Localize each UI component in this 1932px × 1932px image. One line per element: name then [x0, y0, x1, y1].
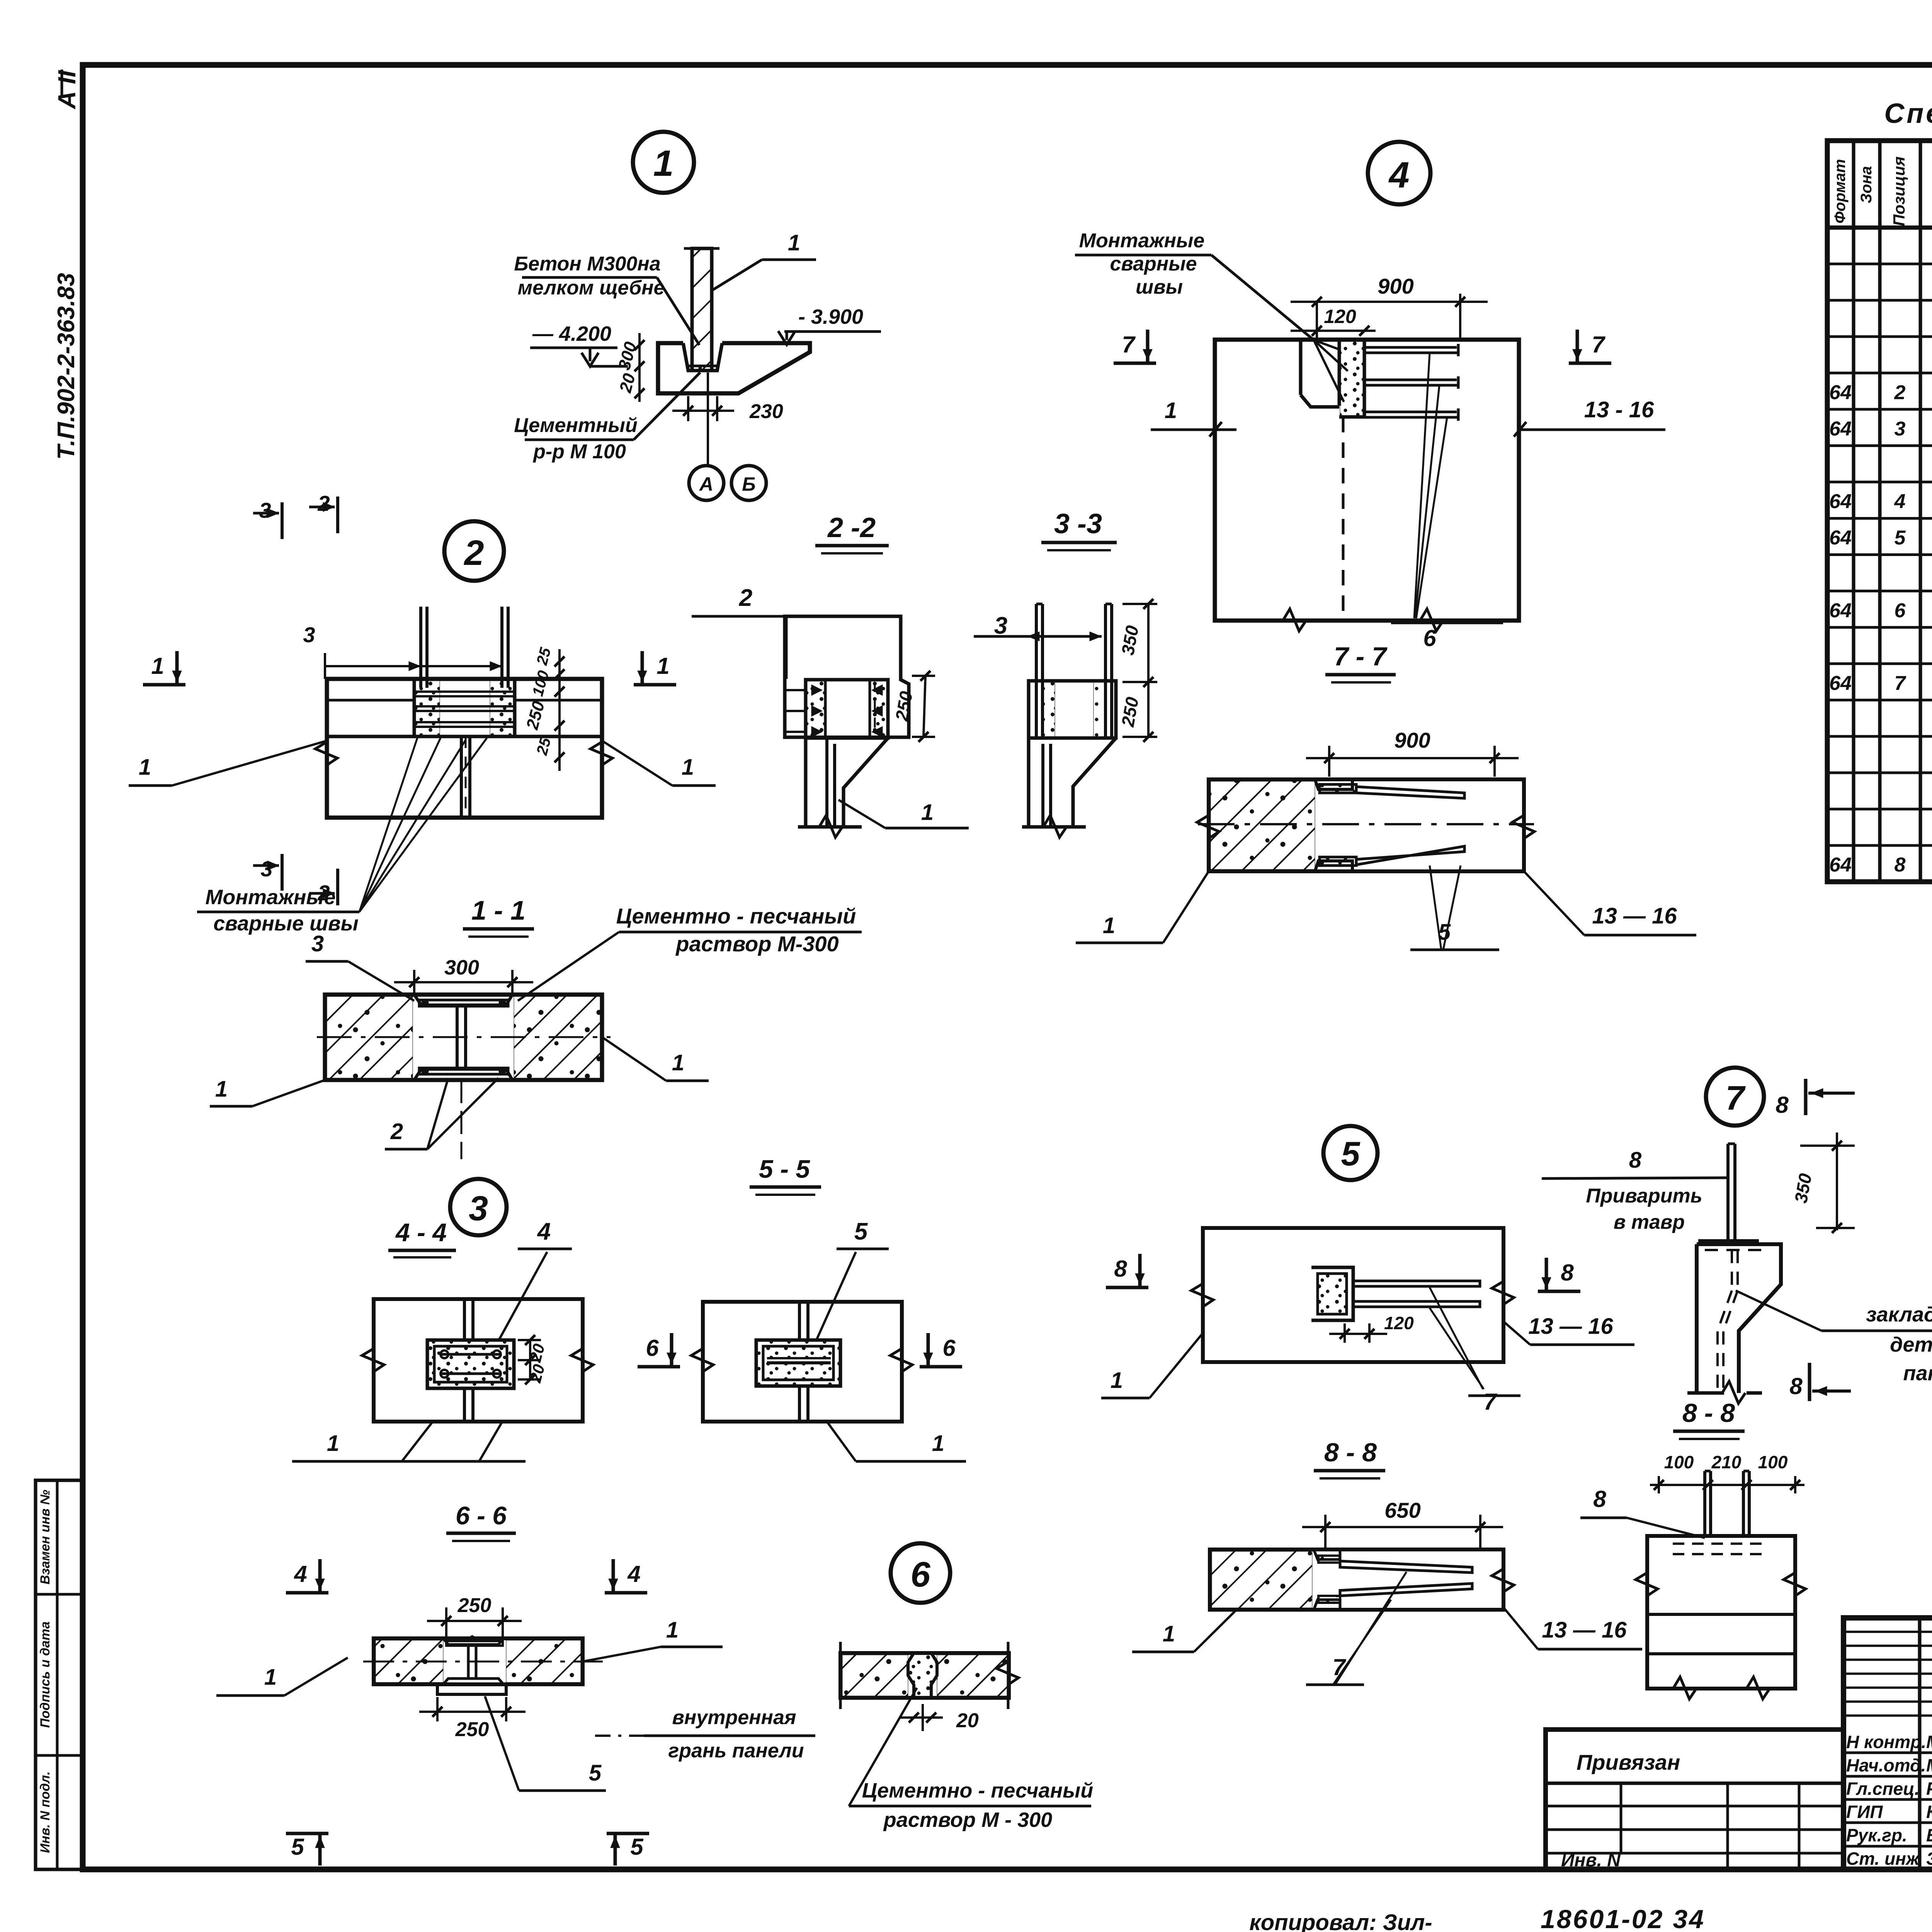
- 7-7 centerline: [1198, 823, 1534, 825]
- svg-text:900: 900: [1378, 274, 1413, 298]
- svg-text:Цементно - песчаный: Цементно - песчаный: [862, 1779, 1093, 1802]
- svg-text:Инв. N: Инв. N: [1561, 1850, 1621, 1871]
- svg-text:1 - 1: 1 - 1: [471, 895, 526, 925]
- 1-1 dim 300: [413, 970, 415, 993]
- 4-4 dims 20 20: [518, 1339, 541, 1341]
- svg-text:250: 250: [1117, 696, 1143, 729]
- svg-text:7: 7: [1726, 1079, 1746, 1117]
- svg-text:Приварить: Приварить: [1586, 1185, 1702, 1207]
- svg-text:Ст. инж: Ст. инж: [1846, 1849, 1920, 1869]
- svg-text:копировал: Зил-: копировал: Зил-: [1249, 1910, 1432, 1932]
- svg-text:р-р М 100: р-р М 100: [532, 440, 626, 463]
- svg-text:5: 5: [291, 1834, 304, 1860]
- svg-text:8 - 8: 8 - 8: [1324, 1438, 1377, 1467]
- 6-6 joint embed: [443, 1638, 503, 1645]
- svg-text:1: 1: [932, 1431, 944, 1456]
- узел 2 break marks: [315, 742, 337, 765]
- 6-6 section marks 4: [286, 1591, 328, 1595]
- svg-text:Руссин: Руссин: [1926, 1779, 1932, 1799]
- svg-text:Мешалкин: Мешалкин: [1926, 1755, 1932, 1776]
- svg-text:6: 6: [1895, 599, 1906, 622]
- узел 7 bubble: [1706, 1068, 1764, 1126]
- svg-text:внутренная: внутренная: [672, 1706, 796, 1729]
- left margin stamp boxes: [36, 1480, 83, 1869]
- узел 6 dim 20: [922, 1704, 924, 1731]
- svg-text:13 — 16: 13 — 16: [1592, 903, 1677, 929]
- 3-3 block: [1029, 681, 1116, 738]
- svg-text:Подпись и дата: Подпись и дата: [38, 1621, 53, 1728]
- svg-text:7: 7: [1122, 332, 1136, 357]
- svg-text:1: 1: [1111, 1368, 1123, 1393]
- 6-6 dim 250 top: [445, 1607, 447, 1636]
- 1-1 centerline: [317, 1036, 611, 1038]
- svg-text:раствор М - 300: раствор М - 300: [883, 1808, 1052, 1832]
- 3-3 hook bars: [1035, 604, 1038, 738]
- svg-text:6: 6: [910, 1555, 930, 1594]
- svg-text:64: 64: [1829, 599, 1852, 622]
- узел 5 embed: [1311, 1267, 1353, 1320]
- svg-text:350: 350: [1117, 624, 1143, 657]
- узел 6 slab: [840, 1653, 1009, 1698]
- узел 2 bubble: [444, 521, 504, 581]
- svg-text:250: 250: [523, 699, 549, 732]
- 8-8R box: [1647, 1536, 1795, 1689]
- svg-text:13 - 16: 13 - 16: [1584, 397, 1654, 422]
- svg-text:1: 1: [215, 1077, 228, 1102]
- узел 2 joint box: [414, 679, 515, 736]
- узел 7 pin: [1726, 1144, 1730, 1241]
- узел 5 bars: [1353, 1281, 1480, 1286]
- svg-text:грань панели: грань панели: [668, 1740, 804, 1762]
- svg-text:Привязан: Привязан: [1577, 1750, 1680, 1774]
- узел 5 section marks 8: [1106, 1286, 1148, 1289]
- svg-text:1: 1: [151, 653, 164, 679]
- svg-text:64: 64: [1829, 381, 1852, 404]
- svg-text:1: 1: [264, 1665, 277, 1690]
- 4-4 outer panel: [374, 1299, 583, 1422]
- svg-text:4: 4: [1894, 490, 1906, 513]
- узел 6 break: [997, 1662, 1019, 1685]
- svg-text:1: 1: [653, 143, 674, 184]
- svg-text:300: 300: [615, 340, 640, 372]
- svg-text:8: 8: [1114, 1256, 1127, 1282]
- svg-text:5: 5: [854, 1218, 868, 1245]
- узел 1 panel strip: [692, 248, 712, 371]
- узел 5 panel: [1203, 1228, 1503, 1362]
- 4-4 vertical joint bar: [463, 1299, 466, 1340]
- svg-text:18601-02 34: 18601-02 34: [1541, 1905, 1705, 1932]
- узел 2 T-stem: [460, 736, 463, 818]
- svg-text:3: 3: [469, 1189, 488, 1228]
- 3-3 lower panel: [1027, 738, 1031, 827]
- svg-text:сварные швы: сварные швы: [213, 912, 358, 935]
- 8-8L bars: [1340, 1561, 1472, 1573]
- узел 6 joint keystone: [908, 1653, 937, 1698]
- svg-text:64: 64: [1829, 527, 1852, 549]
- svg-text:64: 64: [1829, 672, 1852, 694]
- svg-text:1: 1: [1103, 913, 1115, 938]
- 3-3 dims 350 250: [1122, 603, 1157, 605]
- svg-text:8: 8: [1895, 854, 1906, 876]
- svg-text:Н контр.: Н контр.: [1846, 1732, 1926, 1752]
- 6-6 dim 250 bottom: [436, 1697, 439, 1721]
- svg-text:Крюков: Крюков: [1926, 1802, 1932, 1822]
- spec table grid: [1827, 141, 1932, 882]
- svg-text:4 - 4: 4 - 4: [395, 1218, 447, 1247]
- svg-text:1: 1: [682, 755, 694, 780]
- svg-text:8: 8: [1561, 1260, 1574, 1286]
- svg-text:7 - 7: 7 - 7: [1334, 642, 1388, 671]
- svg-text:100: 100: [1758, 1452, 1788, 1472]
- 4-4 embed box: [427, 1340, 514, 1388]
- 8-8L dim 650: [1324, 1515, 1327, 1548]
- svg-text:350: 350: [1791, 1172, 1816, 1205]
- svg-text:3: 3: [303, 622, 315, 647]
- svg-text:швы: швы: [1136, 276, 1183, 298]
- svg-text:1: 1: [1165, 398, 1177, 423]
- svg-text:панели: панели: [1903, 1362, 1932, 1385]
- svg-text:5: 5: [630, 1834, 644, 1860]
- svg-text:1: 1: [666, 1617, 679, 1643]
- узел 1 floor slab: [658, 343, 810, 393]
- svg-text:100: 100: [529, 669, 553, 698]
- svg-text:250: 250: [891, 690, 917, 723]
- svg-text:250: 250: [457, 1594, 492, 1617]
- svg-text:4: 4: [537, 1218, 551, 1245]
- svg-text:Монтажные: Монтажные: [205, 886, 335, 909]
- svg-text:1: 1: [656, 653, 669, 679]
- svg-text:Формат: Формат: [1832, 159, 1849, 224]
- svg-text:— 4.200: — 4.200: [532, 322, 611, 345]
- узел 7 dashed embed: [1731, 1250, 1733, 1291]
- svg-text:64: 64: [1829, 418, 1852, 440]
- svg-text:в тавр: в тавр: [1614, 1211, 1685, 1233]
- узел 4 dashed joint line: [1342, 417, 1345, 621]
- узел 2 dim stack 25 100 250 25: [558, 649, 561, 771]
- svg-text:1: 1: [1163, 1621, 1175, 1646]
- svg-text:8: 8: [1776, 1092, 1789, 1118]
- узел 1 axis circles А Б: [707, 372, 709, 466]
- svg-text:20: 20: [956, 1709, 979, 1732]
- 5-5 vertical joint bar: [798, 1302, 801, 1340]
- узел 7 dim 350: [1800, 1145, 1855, 1147]
- узел 2 panel body: [327, 679, 602, 818]
- svg-text:2: 2: [390, 1119, 403, 1144]
- svg-text:25: 25: [533, 736, 554, 757]
- узел 3 bubble: [450, 1179, 507, 1235]
- узел 4 dim 900: [1316, 332, 1318, 340]
- svg-text:4: 4: [294, 1561, 307, 1587]
- svg-text:А II: А II: [53, 70, 81, 110]
- 1-1 joint I-beam: [414, 995, 512, 1005]
- svg-text:Позиция: Позиция: [1890, 156, 1908, 226]
- 7-7 break marks: [1512, 815, 1534, 838]
- svg-text:Цементный: Цементный: [514, 414, 637, 437]
- svg-text:5 - 5: 5 - 5: [759, 1155, 810, 1183]
- svg-text:64: 64: [1829, 854, 1852, 876]
- узел 1 socket: [683, 343, 722, 371]
- узел 4 bubble: [1368, 142, 1430, 204]
- title block outer: [1844, 1618, 1932, 1869]
- 8-8R pins: [1703, 1471, 1706, 1536]
- svg-text:1: 1: [672, 1050, 684, 1075]
- svg-text:Взамен инв №: Взамен инв №: [38, 1490, 53, 1584]
- title block left extension (Привязан): [1546, 1730, 1844, 1869]
- svg-text:7: 7: [1483, 1389, 1497, 1415]
- svg-text:250: 250: [455, 1718, 489, 1741]
- svg-text:7: 7: [1895, 672, 1906, 694]
- 6-6 section marks 5 (up): [286, 1832, 328, 1835]
- svg-text:8 - 8: 8 - 8: [1682, 1398, 1735, 1428]
- svg-text:7: 7: [1592, 332, 1605, 357]
- svg-text:5: 5: [1895, 527, 1906, 549]
- svg-text:Гл.спец.: Гл.спец.: [1846, 1779, 1920, 1799]
- svg-text:900: 900: [1394, 728, 1430, 752]
- svg-text:Спецификация элементов на о: Спецификация элементов на один узел: [1884, 98, 1932, 129]
- svg-text:- 3.900: - 3.900: [798, 305, 863, 328]
- svg-text:120: 120: [1324, 306, 1356, 327]
- svg-text:2: 2: [739, 585, 752, 611]
- title block inner grid: [1918, 1618, 1922, 1869]
- узел 7 column: [1698, 1239, 1759, 1243]
- svg-text:6 - 6: 6 - 6: [456, 1501, 507, 1530]
- узел 4 rebars: [1364, 346, 1457, 349]
- svg-text:2 -2: 2 -2: [827, 512, 876, 543]
- svg-text:4: 4: [1388, 155, 1410, 196]
- 7-7 joint plates and bars: [1315, 779, 1352, 789]
- svg-text:Болотова: Болотова: [1926, 1825, 1932, 1845]
- svg-text:8: 8: [1629, 1148, 1642, 1173]
- svg-text:8: 8: [1593, 1486, 1606, 1512]
- svg-text:закладная: закладная: [1866, 1303, 1932, 1326]
- узел 4 dim 120: [1291, 330, 1376, 332]
- 2-2 lower panel: [804, 738, 808, 827]
- svg-text:8: 8: [1789, 1373, 1803, 1399]
- svg-text:Бетон М300на: Бетон М300на: [514, 253, 660, 275]
- 2-2 joint detail: [806, 680, 888, 738]
- svg-text:Т.П.902-2-363.83: Т.П.902-2-363.83: [53, 273, 80, 459]
- svg-text:25: 25: [533, 646, 554, 667]
- 5-5 outer panel: [703, 1302, 902, 1422]
- узел 4 rebar leaders to 6: [1414, 353, 1430, 618]
- узел 6 bubble: [891, 1543, 950, 1603]
- svg-text:210: 210: [1711, 1452, 1742, 1472]
- svg-text:3: 3: [311, 931, 324, 956]
- 8-8L joint: [1314, 1549, 1340, 1560]
- svg-text:Зона: Зона: [1858, 166, 1875, 204]
- узел 5 bar leaders to 7: [1430, 1287, 1483, 1389]
- svg-text:раствор М-300: раствор М-300: [675, 932, 838, 956]
- svg-text:64: 64: [1829, 490, 1852, 513]
- svg-text:100: 100: [1664, 1452, 1694, 1472]
- svg-text:Зволинская: Зволинская: [1926, 1849, 1932, 1869]
- узел 4 bottom break marks: [1283, 609, 1306, 631]
- svg-text:650: 650: [1384, 1498, 1420, 1522]
- svg-text:мелком щебне: мелком щебне: [518, 277, 665, 299]
- svg-text:5: 5: [589, 1760, 602, 1786]
- svg-text:4: 4: [627, 1561, 640, 1587]
- svg-text:Мильцер: Мильцер: [1926, 1732, 1932, 1752]
- 2-2 upper panel: [785, 616, 909, 737]
- 6-6 centerline: [363, 1661, 603, 1663]
- 5-5 embed box: [756, 1340, 840, 1386]
- узел 1 dim 300/20: [638, 333, 641, 402]
- svg-text:Монтажные: Монтажные: [1079, 230, 1205, 252]
- 1-1 slab: [325, 995, 602, 1080]
- svg-text:ГИП: ГИП: [1846, 1802, 1883, 1822]
- svg-text:1: 1: [327, 1431, 339, 1456]
- 7-7 slab: [1209, 779, 1524, 871]
- узел 1 dim 230: [687, 396, 689, 421]
- узел 1 bubble: [633, 132, 694, 193]
- 6-6 slab: [374, 1638, 583, 1684]
- svg-text:Нач.отд.: Нач.отд.: [1846, 1755, 1926, 1776]
- 7-7 dim 900: [1328, 746, 1330, 777]
- svg-text:2: 2: [463, 533, 484, 573]
- svg-text:Инв. N подл.: Инв. N подл.: [38, 1771, 53, 1853]
- svg-text:6: 6: [942, 1335, 956, 1361]
- svg-text:Рук.гр.: Рук.гр.: [1846, 1825, 1907, 1845]
- svg-text:3 -3: 3 -3: [1054, 509, 1102, 539]
- svg-text:1: 1: [139, 755, 151, 780]
- svg-text:1: 1: [921, 800, 934, 825]
- svg-text:деталь: деталь: [1890, 1333, 1932, 1356]
- svg-text:20: 20: [616, 371, 639, 395]
- svg-text:300: 300: [444, 956, 479, 979]
- svg-text:5: 5: [1341, 1134, 1361, 1173]
- svg-text:13 — 16: 13 — 16: [1528, 1314, 1613, 1339]
- svg-text:120: 120: [1384, 1313, 1414, 1333]
- узел 4 section marks 7: [1114, 362, 1156, 365]
- svg-text:А: А: [699, 473, 713, 495]
- svg-text:13 — 16: 13 — 16: [1542, 1617, 1627, 1643]
- svg-text:230: 230: [749, 400, 783, 423]
- узел 4 panel block: [1215, 340, 1519, 621]
- svg-text:1: 1: [788, 230, 800, 255]
- svg-text:Б: Б: [742, 473, 755, 495]
- 8-8L slab: [1210, 1549, 1503, 1610]
- 5-5 section marks 6: [638, 1365, 680, 1369]
- svg-text:3: 3: [1895, 418, 1906, 440]
- узел 2 section marks 1: [143, 683, 185, 687]
- узел 2 hook bars: [419, 607, 422, 688]
- 2-2 dim 250: [912, 675, 935, 677]
- узел 5 bubble: [1323, 1126, 1378, 1180]
- svg-text:2: 2: [1894, 381, 1906, 404]
- узел 5 dim 120: [1344, 1323, 1346, 1343]
- svg-text:Цементно - песчаный: Цементно - песчаный: [616, 904, 856, 928]
- svg-text:6: 6: [646, 1335, 659, 1361]
